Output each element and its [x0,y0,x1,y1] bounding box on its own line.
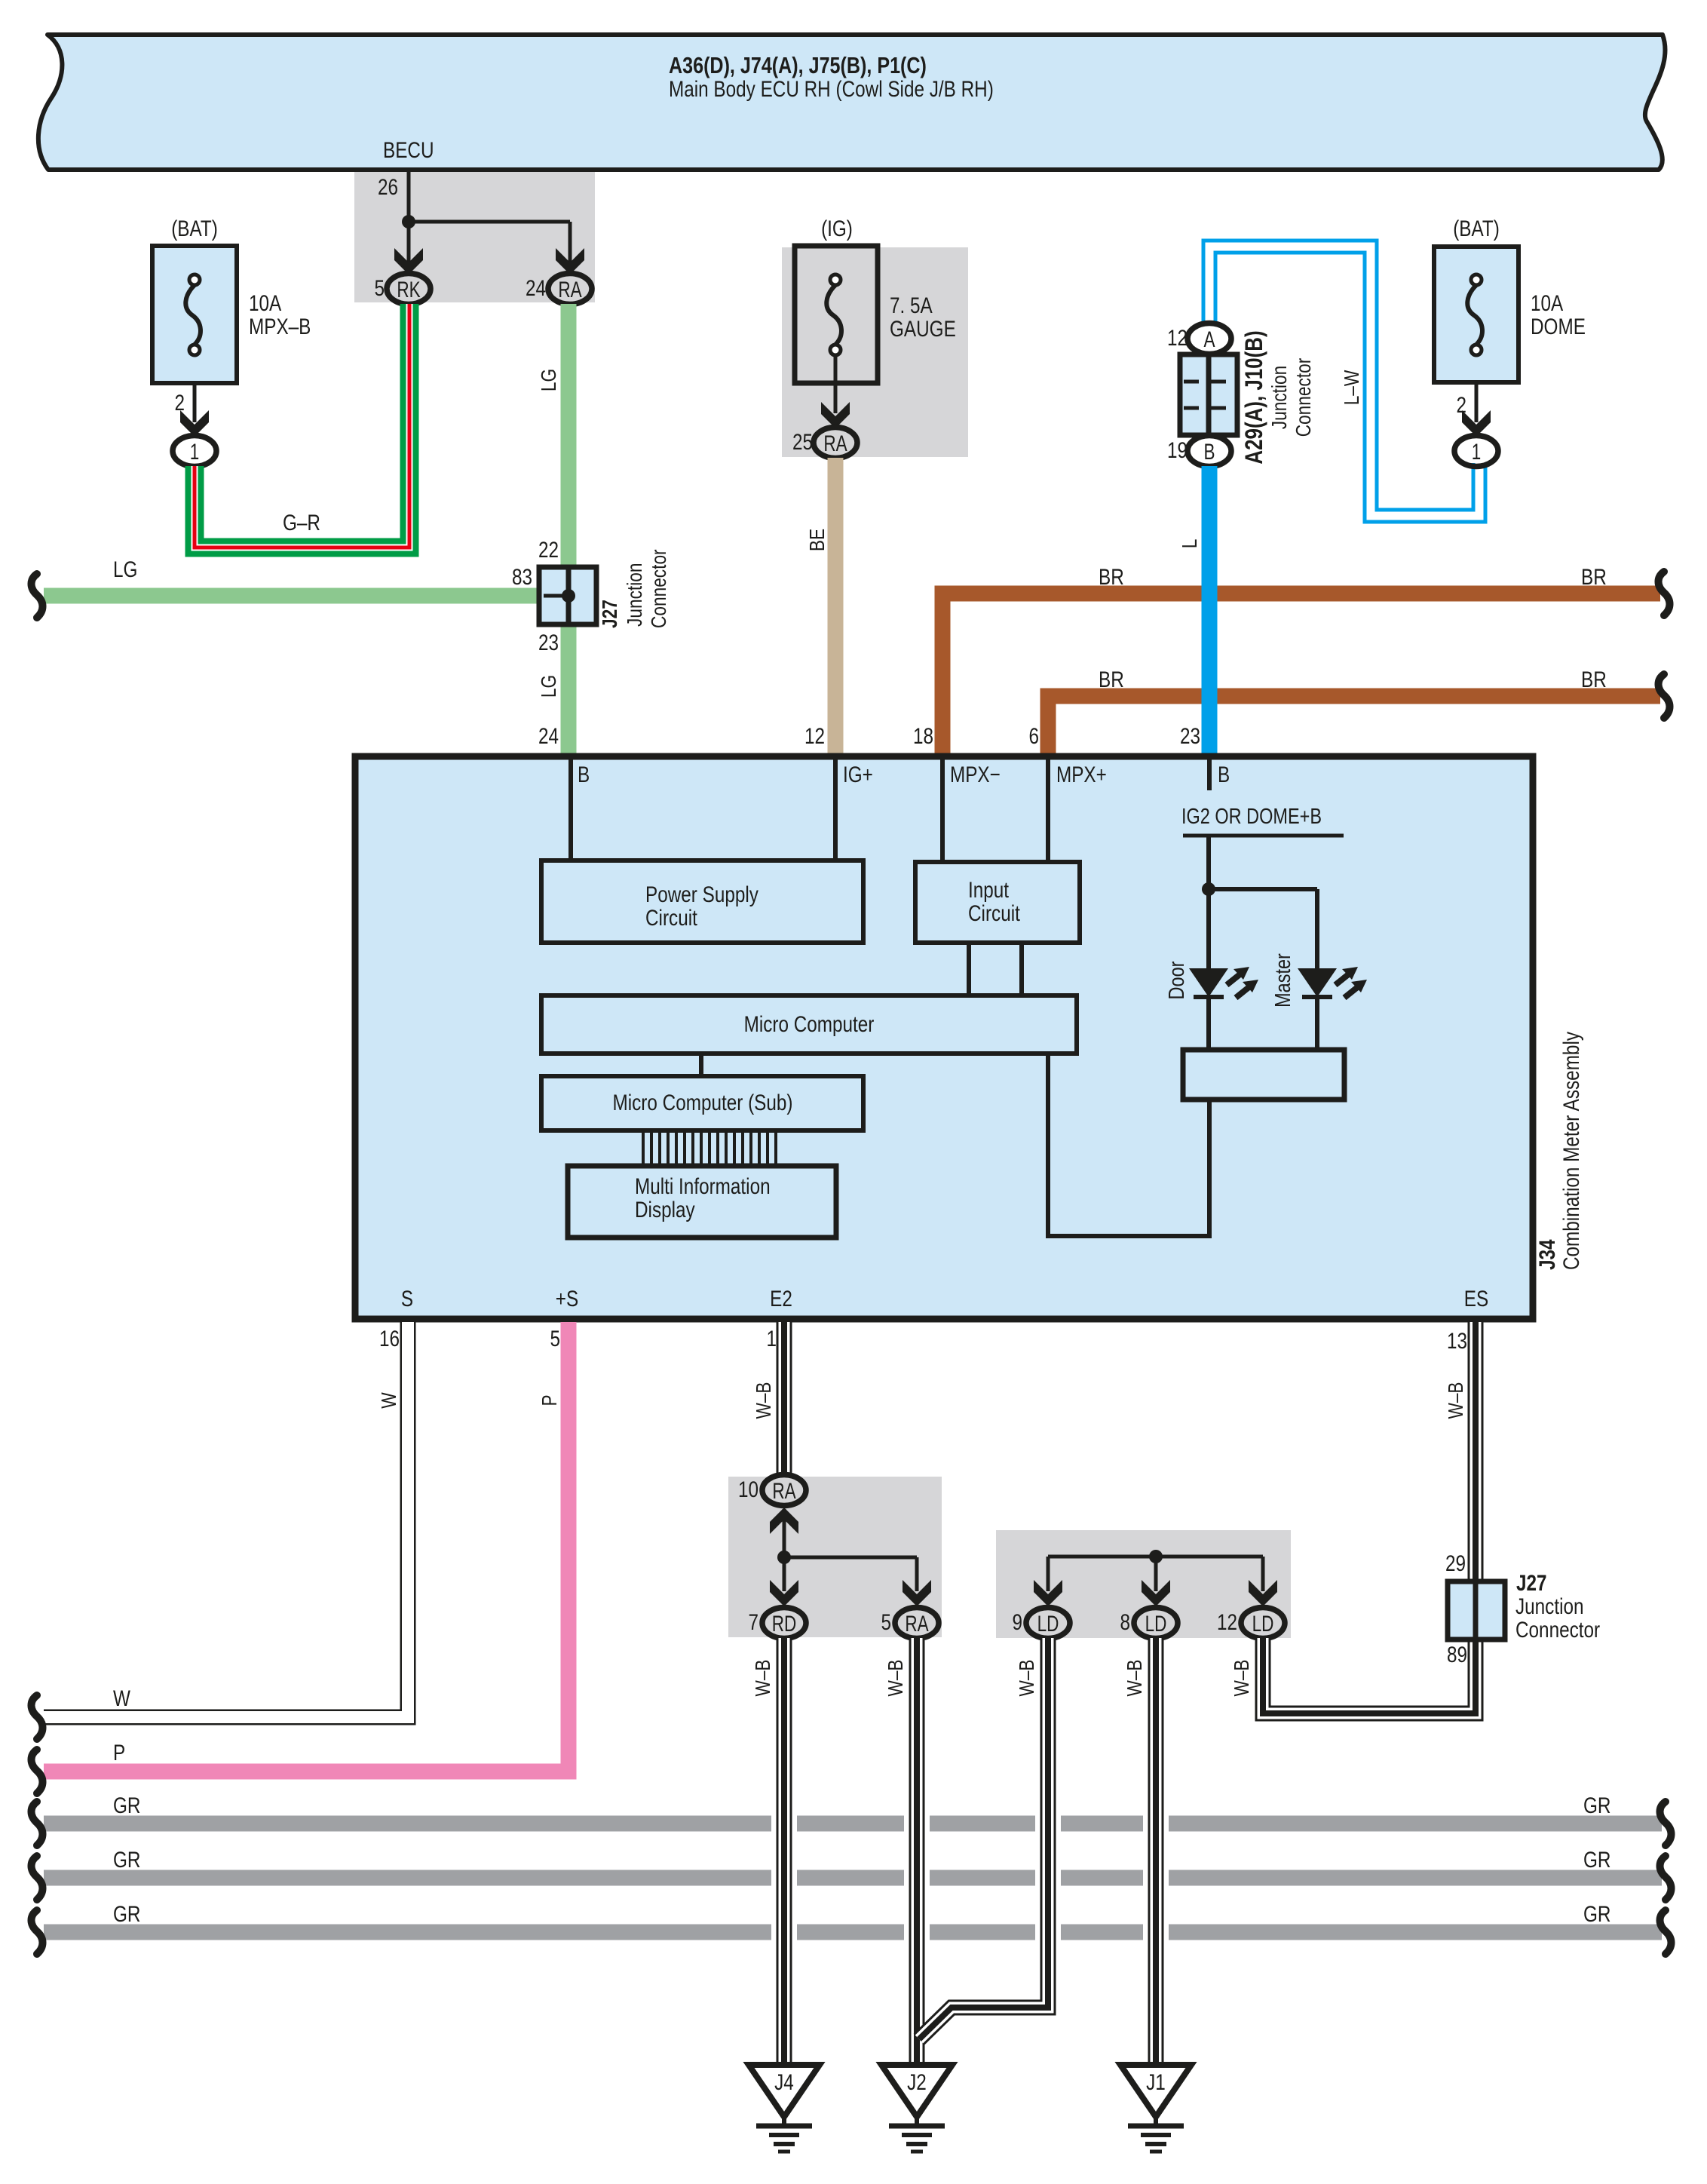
svg-text:LG: LG [537,369,560,391]
svg-text:Connector: Connector [647,549,670,628]
shading LD connectors [996,1530,1291,1638]
svg-text:DOME: DOME [1531,314,1586,339]
svg-text:A29(A), J10(B): A29(A), J10(B) [1240,330,1267,464]
wire W-B 12 LD to J27 [1263,1638,1476,1713]
svg-text:Input: Input [968,878,1010,903]
svg-text:8: 8 [1120,1610,1131,1635]
wire LG from 24 RA to J27 pin 22 [561,304,577,567]
svg-text:LG: LG [537,675,560,698]
svg-text:W–B: W–B [1123,1659,1146,1696]
svg-text:LG: LG [113,557,137,582]
svg-text:Door: Door [1165,961,1189,999]
fuse 10A DOME (BAT) [1434,247,1519,382]
svg-text:13: 13 [1447,1329,1467,1354]
connector 1 (DOME) [1454,436,1498,467]
svg-text:18: 18 [913,724,933,749]
junction block shading (BECU outputs) [354,172,595,302]
wire L from pin B to meter pin 23 [1202,466,1218,753]
connector 10 RA [762,1475,806,1506]
input circuit box [915,862,1080,943]
arrow into 25 RA [821,402,850,428]
svg-text:Junction: Junction [1267,366,1291,430]
resistor box [1183,1050,1344,1100]
svg-text:24: 24 [538,724,559,749]
svg-text:LD: LD [1252,1612,1274,1636]
fuse 10A MPX-B (BAT) [152,246,237,383]
svg-text:Power Supply: Power Supply [645,882,758,907]
connector B (pin 19) [1188,436,1231,467]
arrow up into 10 RA [770,1508,798,1534]
svg-text:Circuit: Circuit [645,906,697,931]
svg-text:6: 6 [1029,724,1040,749]
svg-text:B: B [578,762,590,787]
svg-text:W–B: W–B [752,1382,775,1419]
svg-text:22: 22 [538,538,559,563]
svg-text:89: 89 [1447,1643,1467,1667]
internal wire pin B to power supply [568,757,573,860]
svg-text:BR: BR [1581,565,1607,590]
micro computer box [541,995,1077,1054]
wire W-B from pin E2 [777,1322,792,1477]
svg-text:2: 2 [175,391,185,416]
svg-text:24: 24 [526,276,546,301]
svg-text:GR: GR [113,1793,141,1818]
svg-text:E2: E2 [770,1287,792,1311]
svg-text:LD: LD [1145,1612,1167,1636]
svg-text:RA: RA [823,431,847,456]
wire BR upper (MPX-) [942,594,1660,753]
svg-text:IG2 OR DOME+B: IG2 OR DOME+B [1181,805,1322,829]
svg-text:G–R: G–R [283,511,320,535]
wire W-B 7 RD to ground J4 [777,1638,792,2063]
wire BR lower (MPX+) [1048,696,1660,753]
svg-text:GR: GR [1583,1848,1611,1873]
junction dot LED branch [1202,882,1215,896]
svg-text:W: W [113,1686,130,1711]
svg-text:BECU: BECU [383,138,434,163]
svg-text:1: 1 [1472,440,1482,465]
svg-text:12: 12 [1217,1610,1237,1635]
gauge fuse shading [782,247,968,457]
svg-text:Combination Meter Assembly: Combination Meter Assembly [1559,1032,1584,1270]
svg-text:26: 26 [378,175,398,200]
arrow into 8 LD [1142,1580,1170,1606]
power supply circuit box [541,860,863,943]
arrow into 12 LD [1249,1580,1277,1606]
wire fuse to connector pin 2 [193,383,197,422]
svg-text:7: 7 [749,1610,759,1635]
svg-text:J1: J1 [1146,2070,1166,2095]
svg-text:L: L [1178,539,1201,549]
svg-text:Micro Computer (Sub): Micro Computer (Sub) [613,1090,793,1115]
arrow into 7 RD [770,1580,798,1606]
svg-text:RA: RA [905,1612,928,1636]
svg-text:12: 12 [804,724,825,749]
LED Door [1189,968,1228,997]
connector 9 LD [1026,1608,1070,1639]
svg-text:Connector: Connector [1515,1618,1600,1643]
wire fuse to 25 RA [834,355,838,413]
wires LEDs to resistor [1206,997,1211,1050]
connector 5 RA [895,1608,939,1639]
wire GR bus 2 [44,1870,1662,1886]
wire 10 RA to branch dot [783,1509,786,1591]
svg-text:W–B: W–B [1444,1382,1467,1419]
junction connector J27 (left) [539,567,596,624]
wire LG from left (pin 83) [44,588,539,604]
svg-text:5: 5 [550,1327,561,1351]
ground J1 [1120,2065,1191,2117]
multi information display box [568,1166,836,1238]
wire W from pin S [44,1322,408,1717]
illumination bus wire [1048,1555,1263,1559]
svg-text:MPX+: MPX+ [1056,762,1107,787]
connector 7 RD [762,1608,806,1639]
svg-text:J2: J2 [907,2070,927,2095]
wire G-R from MPX-B fuse to BECU RK [195,304,409,548]
svg-text:7. 5A: 7. 5A [890,293,933,318]
wire LG J27 pin 23 to meter pin 24 [561,624,577,753]
svg-text:1: 1 [767,1327,777,1351]
connector A (pin 12) [1188,324,1231,354]
arrow into connector 1 [180,410,209,437]
svg-text:RA: RA [558,278,581,302]
connector 25 RA [814,428,857,459]
svg-text:RK: RK [397,278,420,302]
connector 5 RK [387,274,431,305]
svg-text:Display: Display [635,1198,695,1222]
svg-text:10A: 10A [249,291,281,316]
svg-text:(IG): (IG) [821,216,853,241]
svg-text:P: P [538,1394,561,1406]
svg-text:J34: J34 [1535,1239,1560,1270]
connector 24 RA [548,274,592,305]
svg-text:W–B: W–B [751,1659,774,1696]
svg-text:+S: +S [556,1287,578,1311]
junction connector A29(A), J10(B) [1180,354,1237,435]
junction dot [402,215,415,229]
svg-text:BE: BE [805,529,829,551]
svg-text:B: B [1218,762,1230,787]
svg-text:1: 1 [190,440,200,465]
wire GR bus 3 [44,1925,1662,1940]
internal wire pin B(23) stub [1207,757,1212,790]
svg-text:RA: RA [772,1479,795,1504]
svg-text:10A: 10A [1531,291,1563,316]
micro computer (sub) box [541,1076,863,1130]
wire W-B 5 RA to ground J2 [909,1638,925,2063]
svg-text:12: 12 [1167,326,1188,351]
svg-text:Circuit: Circuit [968,901,1020,926]
svg-text:MPX–B: MPX–B [249,314,311,339]
svg-text:W–B: W–B [1015,1659,1038,1696]
svg-text:GR: GR [1583,1793,1611,1818]
svg-text:25: 25 [792,430,813,455]
ground J4 [749,2065,820,2117]
svg-text:GR: GR [1583,1902,1611,1927]
svg-text:Connector: Connector [1292,358,1315,437]
wire BE to meter IG+ [828,458,844,753]
svg-text:IG+: IG+ [843,762,873,787]
svg-text:29: 29 [1445,1551,1466,1576]
svg-text:GAUGE: GAUGE [890,317,956,342]
svg-text:BR: BR [1581,667,1607,692]
bus comb between sub and display [642,1130,645,1166]
svg-text:23: 23 [538,630,559,655]
wire W-B 9 LD to ground J2 [919,1638,1048,2039]
svg-text:Multi Information: Multi Information [635,1174,771,1199]
svg-text:Micro Computer: Micro Computer [744,1012,875,1037]
arrow into 9 LD [1034,1580,1062,1606]
arrow into 24 RA [556,248,584,275]
connector 12 LD [1241,1608,1285,1639]
wire fuse to connector pin 2 [1475,382,1479,422]
svg-text:Master: Master [1271,953,1295,1008]
wire micro computer to LED resistor [1048,1054,1209,1236]
wire W-B 8 LD to ground J1 [1148,1638,1164,2063]
internal wire MPX- to input circuit [940,757,945,862]
svg-text:GR: GR [113,1902,141,1927]
fuse 7.5A GAUGE (IG) [795,246,878,383]
svg-text:LD: LD [1037,1612,1059,1636]
svg-text:A36(D), J74(A), J75(B), P1(C): A36(D), J74(A), J75(B), P1(C) [669,52,927,78]
connector 8 LD [1134,1608,1178,1639]
shading RA/RD connectors [728,1477,942,1637]
svg-text:L–W: L–W [1340,370,1363,405]
arrow into 5 RA [903,1580,931,1606]
wire BECU pin 26 [407,170,411,264]
branch to 5 RA [784,1556,917,1560]
svg-text:Junction: Junction [1515,1594,1584,1619]
svg-text:19: 19 [1167,438,1188,463]
svg-text:GR: GR [113,1848,141,1873]
svg-text:23: 23 [1180,724,1200,749]
LED Master [1298,968,1337,997]
combination meter assembly J34 box [355,756,1533,1319]
svg-text:BR: BR [1099,667,1124,692]
ground J2 [881,2065,952,2117]
svg-text:J27: J27 [1516,1571,1547,1596]
svg-text:W: W [377,1392,400,1409]
svg-text:ES: ES [1464,1287,1488,1311]
svg-text:RD: RD [772,1612,797,1636]
internal wire IG+ to power supply [833,757,838,860]
wire W-B from pin ES [1468,1322,1484,1581]
svg-text:W–B: W–B [884,1659,907,1696]
svg-text:J27: J27 [598,600,621,628]
junction connector J27 (bottom right) [1448,1581,1505,1640]
svg-text:B: B [1204,440,1215,465]
wires input circuit to micro computer [967,943,971,995]
wire to RA branch [409,220,570,224]
arrow into 5 RK [394,248,423,275]
svg-text:9: 9 [1013,1610,1023,1635]
svg-text:MPX−: MPX− [950,762,1001,787]
internal wire MPX+ to input circuit [1046,757,1050,862]
arrow into connector 1 [1462,410,1491,437]
wire IG2 bus down [1206,836,1211,968]
Main Body ECU banner (A36/J74/J75/P1) [38,35,1666,170]
svg-text:83: 83 [512,565,532,590]
svg-text:5: 5 [375,276,385,301]
svg-text:Main Body ECU RH (Cowl Side J/: Main Body ECU RH (Cowl Side J/B RH) [669,77,994,102]
svg-text:A: A [1204,327,1215,352]
svg-text:10: 10 [738,1477,758,1502]
svg-text:S: S [401,1287,413,1311]
svg-text:Junction: Junction [623,563,646,627]
svg-text:J4: J4 [774,2070,794,2095]
svg-text:W–B: W–B [1230,1659,1253,1696]
svg-text:16: 16 [379,1327,400,1351]
svg-text:P: P [113,1741,125,1765]
svg-text:(BAT): (BAT) [1453,216,1500,241]
wire P from pin +S [44,1322,568,1771]
wire L-W from A29 pin A to DOME 1 [1209,247,1479,516]
connector 1 (MPX-B) [173,436,216,467]
svg-text:(BAT): (BAT) [171,216,218,241]
svg-text:5: 5 [881,1610,892,1635]
wire GR bus 1 [44,1816,1662,1832]
svg-text:BR: BR [1099,565,1124,590]
wire micro computer to sub [699,1054,703,1076]
